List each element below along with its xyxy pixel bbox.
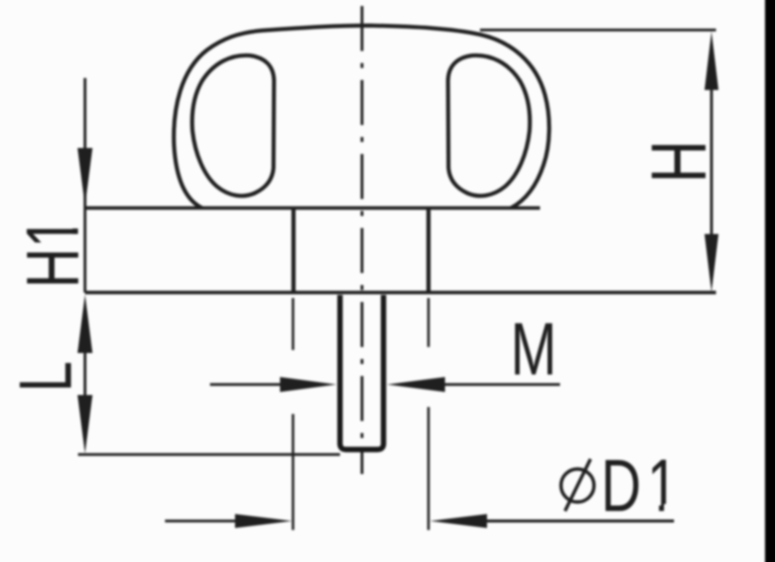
D1 dimension left line xyxy=(165,520,235,523)
arrow down at hub bottom right xyxy=(705,234,719,292)
threaded stud xyxy=(340,295,384,450)
arrow up at knob top xyxy=(705,32,719,91)
M dimension right line xyxy=(445,383,560,386)
svg-text:D1: D1 xyxy=(601,444,684,527)
hub right edge xyxy=(426,208,430,293)
cover digit-1 foot serif (right) xyxy=(664,504,676,513)
arrow up at hub bottom xyxy=(78,295,93,354)
hub left edge xyxy=(291,208,295,293)
H top extension line xyxy=(480,29,716,32)
cover digit-1 foot serif (left) xyxy=(648,504,660,513)
M arrow right-pointing xyxy=(280,377,337,392)
D1 extension line right lower xyxy=(427,407,430,530)
svg-text:M: M xyxy=(511,308,557,391)
diameter symbol circle xyxy=(561,469,594,502)
L dimension mid segment xyxy=(84,353,87,395)
D1 extension line left lower xyxy=(292,414,295,530)
svg-text:L: L xyxy=(4,361,87,392)
stud bottom extension line xyxy=(78,453,340,456)
left dimension line xyxy=(84,78,87,293)
M arrow left-pointing xyxy=(387,377,445,392)
arrow down at knob bottom xyxy=(78,148,93,206)
D1 arrow right-pointing xyxy=(235,514,292,528)
hub bottom line xyxy=(85,291,716,294)
svg-text:H: H xyxy=(635,140,723,183)
D1 extension line right upper xyxy=(427,298,430,347)
right wing hole xyxy=(448,55,530,196)
H dimension line xyxy=(710,90,713,234)
D1 extension line left upper xyxy=(292,298,295,350)
centerline xyxy=(361,6,364,474)
D1 arrow left-pointing xyxy=(430,514,487,528)
knob bottom line xyxy=(85,206,540,209)
svg-text:H1: H1 xyxy=(11,217,94,288)
M dimension left line xyxy=(210,383,280,386)
right edge black bar xyxy=(765,0,775,562)
cover rotated digit-1 foot serif (top) xyxy=(71,218,80,229)
cover rotated digit-1 foot serif (bottom) xyxy=(71,234,80,246)
D1 dimension right line xyxy=(487,520,674,523)
knob body outline xyxy=(174,26,549,209)
diameter symbol slash xyxy=(565,459,591,511)
left wing hole xyxy=(192,55,274,196)
arrow down at stud bottom xyxy=(78,395,93,454)
